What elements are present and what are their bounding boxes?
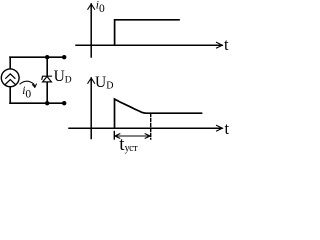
top graph: i0 axis (vertical) [90, 4, 92, 57]
bottom graph: t axis arrowhead [217, 125, 223, 131]
wire diode branch [46, 57, 48, 103]
wire top (circuit) [10, 56, 64, 58]
settling time double arrow [115, 134, 150, 139]
node dot bottom terminal [62, 101, 66, 105]
bottom graph: U_D axis (vertical) [90, 78, 92, 139]
node dot bottom junction [45, 101, 49, 105]
top graph: step waveform i0(t) [115, 20, 179, 45]
bottom graph: U_D axis arrowhead [88, 78, 95, 83]
top graph: t axis arrowhead [217, 42, 223, 48]
left measurement tick [113, 132, 115, 140]
bottom graph: waveform U_D(t) step, decay, steady level [115, 99, 202, 128]
current source I0 [1, 69, 19, 87]
zener diode VD (cathode bar with bent end, anode triangle) [42, 76, 52, 82]
current direction arrow i0 [20, 81, 36, 87]
node dot top terminal [62, 55, 66, 59]
top graph: i0 axis arrowhead [88, 4, 95, 9]
svg-text:t: t [224, 35, 229, 54]
wire bottom (circuit) [10, 102, 64, 104]
wire left rail bottom [9, 87, 11, 103]
dashed settling-time line [150, 114, 152, 139]
node dot top junction [45, 55, 49, 59]
wire left rail top [9, 57, 11, 68]
bottom graph: t axis [69, 127, 222, 129]
svg-text:t: t [225, 119, 230, 138]
top graph: t axis [76, 44, 222, 46]
